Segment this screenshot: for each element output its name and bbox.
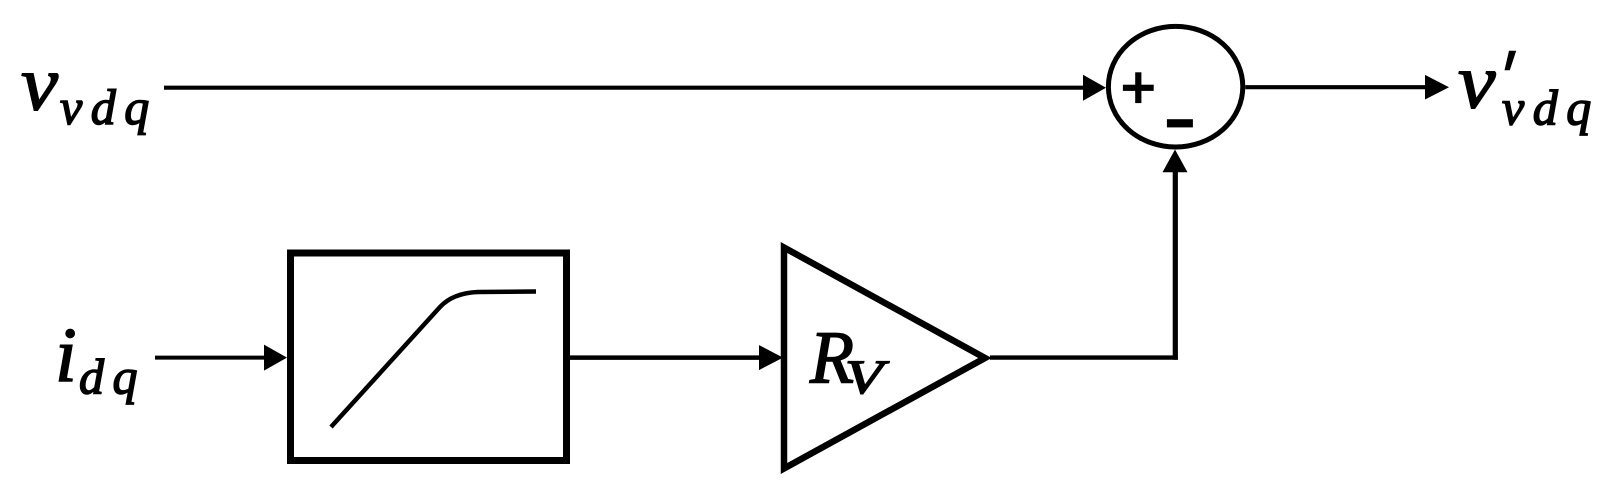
svg-text:V: V (845, 351, 889, 404)
wire vertical up to summer (1173, 168, 1178, 360)
wire i_dq to limiter block (155, 356, 266, 360)
arrowhead into limiter (264, 345, 287, 371)
node v_vdq (top-left input label) (21, 40, 158, 135)
plus sign inside summer (1123, 72, 1154, 103)
wire top horizontal from v_vdq to summer (164, 86, 1086, 90)
wire limiter to gain block (570, 355, 762, 360)
label R_V inside gain (809, 317, 889, 405)
node i_dq (bottom-left input label) (55, 311, 146, 404)
node v'_vdq (output label) (1458, 38, 1600, 136)
minus sign inside summer (1167, 119, 1193, 127)
svg-text:v: v (21, 40, 58, 127)
saturation curve inside limiter (331, 292, 536, 428)
limiter block (saturation box) (291, 253, 567, 461)
svg-text:vdq: vdq (60, 79, 158, 135)
arrowhead into summer bottom (1163, 150, 1188, 173)
wire gain output to corner (990, 355, 1178, 359)
arrowhead at output (1425, 75, 1449, 100)
summing junction U1 (circle) (1108, 26, 1242, 147)
arrowhead into summer left (1083, 75, 1106, 101)
wire summer output (1245, 85, 1428, 89)
svg-text:dq: dq (79, 348, 146, 404)
svg-text:v: v (1458, 38, 1496, 125)
svg-text:i: i (55, 311, 77, 398)
svg-text:vdq: vdq (1502, 79, 1600, 135)
arrowhead into gain (759, 345, 783, 370)
gain block R_V (triangle) (784, 248, 985, 469)
